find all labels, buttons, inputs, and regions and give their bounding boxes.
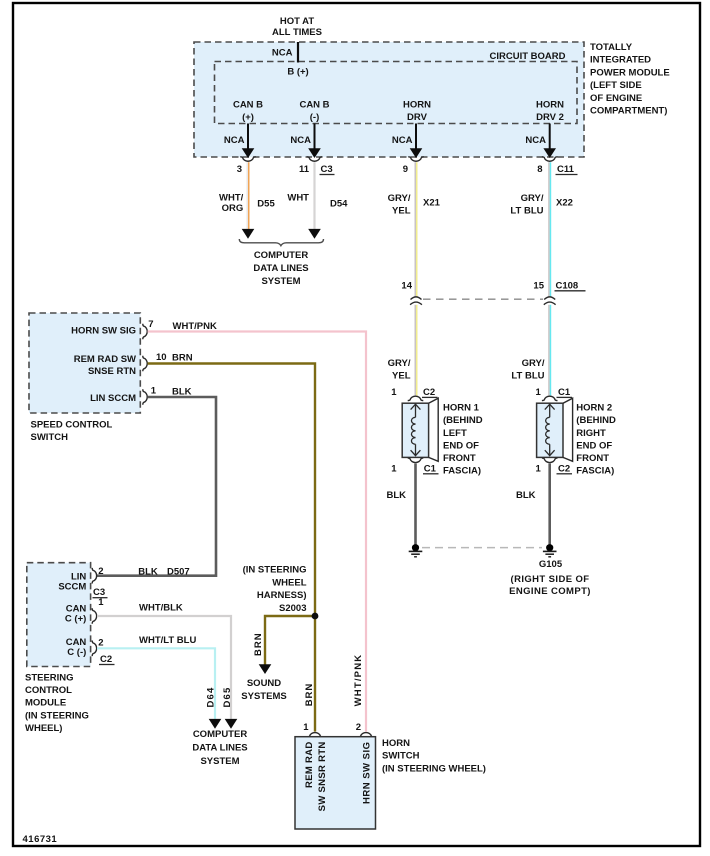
svg-text:NCA: NCA bbox=[525, 135, 546, 146]
svg-text:14: 14 bbox=[401, 280, 412, 291]
svg-text:X22: X22 bbox=[556, 198, 573, 209]
svg-text:NCA: NCA bbox=[392, 135, 413, 146]
svg-text:CIRCUIT BOARD: CIRCUIT BOARD bbox=[490, 51, 566, 62]
svg-text:C108: C108 bbox=[556, 280, 579, 291]
svg-text:COMPARTMENT): COMPARTMENT) bbox=[590, 106, 667, 117]
svg-text:FASCIA): FASCIA) bbox=[576, 466, 614, 477]
svg-text:ENGINE COMPT): ENGINE COMPT) bbox=[509, 586, 591, 597]
svg-text:BLK: BLK bbox=[138, 567, 158, 578]
svg-text:STEERING: STEERING bbox=[25, 672, 74, 683]
svg-text:9: 9 bbox=[403, 164, 408, 175]
svg-text:WHT/LT BLU: WHT/LT BLU bbox=[139, 635, 196, 646]
svg-text:LT BLU: LT BLU bbox=[510, 206, 543, 217]
svg-text:ORG: ORG bbox=[222, 203, 244, 214]
svg-text:416731: 416731 bbox=[23, 834, 58, 845]
svg-text:BLK: BLK bbox=[386, 490, 406, 501]
svg-text:(LEFT SIDE: (LEFT SIDE bbox=[590, 80, 642, 91]
svg-text:GRY/: GRY/ bbox=[388, 358, 411, 369]
svg-text:INTEGRATED: INTEGRATED bbox=[590, 55, 651, 66]
svg-text:FRONT: FRONT bbox=[443, 453, 476, 464]
svg-text:2: 2 bbox=[356, 722, 361, 733]
svg-text:SCCM: SCCM bbox=[58, 582, 86, 593]
svg-text:HARNESS): HARNESS) bbox=[257, 590, 307, 601]
svg-text:HOT AT: HOT AT bbox=[280, 16, 314, 27]
svg-text:CAN B: CAN B bbox=[233, 99, 263, 110]
svg-text:GRY/: GRY/ bbox=[521, 193, 544, 204]
svg-text:BRN: BRN bbox=[253, 632, 264, 656]
svg-text:SWITCH: SWITCH bbox=[382, 751, 420, 762]
svg-text:1: 1 bbox=[391, 387, 397, 398]
svg-text:X21: X21 bbox=[423, 198, 441, 209]
svg-text:DRV: DRV bbox=[407, 112, 428, 123]
svg-text:NCA: NCA bbox=[272, 47, 293, 58]
svg-text:WHEEL: WHEEL bbox=[272, 577, 307, 588]
svg-text:C3: C3 bbox=[321, 164, 333, 175]
svg-text:NCA: NCA bbox=[290, 135, 311, 146]
svg-text:D55: D55 bbox=[257, 199, 275, 210]
svg-text:DATA LINES: DATA LINES bbox=[192, 743, 247, 754]
svg-text:BRN: BRN bbox=[172, 353, 193, 364]
svg-text:OF ENGINE: OF ENGINE bbox=[590, 93, 642, 104]
svg-text:DATA LINES: DATA LINES bbox=[253, 263, 308, 274]
svg-text:END OF: END OF bbox=[443, 440, 479, 451]
svg-text:END OF: END OF bbox=[576, 440, 612, 451]
svg-text:(IN STEERING: (IN STEERING bbox=[243, 565, 307, 576]
svg-text:WHEEL): WHEEL) bbox=[25, 723, 62, 734]
svg-text:C2: C2 bbox=[423, 387, 435, 398]
svg-text:10: 10 bbox=[156, 352, 167, 363]
svg-text:8: 8 bbox=[537, 164, 542, 175]
svg-text:1: 1 bbox=[536, 387, 542, 398]
svg-text:SYSTEM: SYSTEM bbox=[200, 756, 239, 767]
svg-text:HORN: HORN bbox=[403, 99, 431, 110]
svg-text:NCA: NCA bbox=[224, 135, 245, 146]
svg-text:COMPUTER: COMPUTER bbox=[193, 729, 248, 740]
svg-text:(-): (-) bbox=[310, 112, 320, 123]
svg-text:B (+): B (+) bbox=[287, 67, 308, 78]
svg-text:2: 2 bbox=[98, 637, 103, 648]
svg-text:GRY/: GRY/ bbox=[522, 358, 545, 369]
svg-text:SW SNSR RTN: SW SNSR RTN bbox=[317, 742, 328, 812]
svg-text:SYSTEMS: SYSTEMS bbox=[241, 691, 286, 702]
svg-text:YEL: YEL bbox=[392, 371, 411, 382]
svg-text:C2: C2 bbox=[558, 463, 570, 474]
svg-text:1: 1 bbox=[98, 597, 104, 608]
svg-text:15: 15 bbox=[533, 280, 544, 291]
svg-text:3: 3 bbox=[237, 164, 242, 175]
svg-text:WHT/BLK: WHT/BLK bbox=[139, 603, 183, 614]
svg-text:YEL: YEL bbox=[392, 206, 411, 217]
svg-text:LIN SCCM: LIN SCCM bbox=[90, 393, 136, 404]
svg-text:HORN 1: HORN 1 bbox=[443, 403, 480, 414]
svg-text:11: 11 bbox=[299, 164, 310, 175]
svg-text:LEFT: LEFT bbox=[443, 428, 467, 439]
svg-text:CONTROL: CONTROL bbox=[25, 685, 72, 696]
svg-text:S2003: S2003 bbox=[279, 603, 306, 614]
svg-text:POWER MODULE: POWER MODULE bbox=[590, 67, 670, 78]
svg-text:C2: C2 bbox=[100, 654, 112, 665]
svg-text:C1: C1 bbox=[558, 387, 571, 398]
svg-text:D507: D507 bbox=[167, 567, 190, 578]
svg-text:CAN B: CAN B bbox=[299, 99, 329, 110]
svg-text:1: 1 bbox=[536, 463, 542, 474]
svg-text:WHT/PNK: WHT/PNK bbox=[173, 321, 217, 332]
svg-text:1: 1 bbox=[303, 722, 309, 733]
svg-text:LT BLU: LT BLU bbox=[511, 371, 544, 382]
svg-text:D64: D64 bbox=[206, 687, 217, 708]
svg-text:MODULE: MODULE bbox=[25, 698, 66, 709]
svg-text:C11: C11 bbox=[557, 164, 575, 175]
svg-text:(IN STEERING WHEEL): (IN STEERING WHEEL) bbox=[382, 763, 486, 774]
svg-text:7: 7 bbox=[148, 319, 153, 330]
svg-text:SNSE RTN: SNSE RTN bbox=[88, 366, 136, 377]
svg-text:1: 1 bbox=[391, 463, 397, 474]
svg-text:RIGHT: RIGHT bbox=[576, 428, 606, 439]
svg-text:HORN: HORN bbox=[382, 738, 410, 749]
svg-text:2: 2 bbox=[98, 566, 103, 577]
svg-text:(BEHIND: (BEHIND bbox=[576, 415, 616, 426]
svg-text:D65: D65 bbox=[222, 687, 233, 708]
svg-text:FASCIA): FASCIA) bbox=[443, 466, 481, 477]
svg-text:GRY/: GRY/ bbox=[388, 193, 411, 204]
svg-text:SYSTEM: SYSTEM bbox=[261, 276, 300, 287]
svg-text:(RIGHT SIDE OF: (RIGHT SIDE OF bbox=[511, 574, 590, 585]
svg-text:G105: G105 bbox=[539, 559, 563, 570]
svg-text:(IN STEERING: (IN STEERING bbox=[25, 710, 89, 721]
svg-text:SPEED CONTROL: SPEED CONTROL bbox=[31, 419, 113, 430]
svg-text:WHT/: WHT/ bbox=[219, 193, 244, 204]
svg-text:FRONT: FRONT bbox=[576, 453, 609, 464]
svg-text:REM RAD: REM RAD bbox=[304, 742, 315, 788]
svg-text:SOUND: SOUND bbox=[247, 678, 281, 689]
svg-text:BLK: BLK bbox=[516, 490, 536, 501]
svg-text:C1: C1 bbox=[424, 463, 437, 474]
svg-text:DRV 2: DRV 2 bbox=[536, 112, 564, 123]
svg-text:HORN SW SIG: HORN SW SIG bbox=[71, 326, 136, 337]
svg-text:HORN 2: HORN 2 bbox=[576, 403, 612, 414]
svg-text:TOTALLY: TOTALLY bbox=[590, 42, 633, 53]
svg-text:(BEHIND: (BEHIND bbox=[443, 415, 483, 426]
svg-text:REM RAD SW: REM RAD SW bbox=[74, 354, 136, 365]
svg-text:(+): (+) bbox=[242, 112, 254, 123]
svg-text:D54: D54 bbox=[330, 199, 348, 210]
svg-text:BRN: BRN bbox=[304, 683, 315, 707]
svg-text:SWITCH: SWITCH bbox=[31, 432, 69, 443]
svg-text:WHT/PNK: WHT/PNK bbox=[353, 654, 364, 707]
svg-text:WHT: WHT bbox=[287, 193, 309, 204]
svg-text:ALL TIMES: ALL TIMES bbox=[272, 27, 322, 38]
svg-text:HRN SW SIG: HRN SW SIG bbox=[361, 742, 372, 805]
svg-text:HORN: HORN bbox=[536, 99, 564, 110]
svg-text:C (+): C (+) bbox=[65, 613, 86, 624]
svg-text:C (-): C (-) bbox=[67, 647, 86, 658]
svg-text:1: 1 bbox=[151, 386, 157, 397]
svg-text:COMPUTER: COMPUTER bbox=[254, 250, 309, 261]
